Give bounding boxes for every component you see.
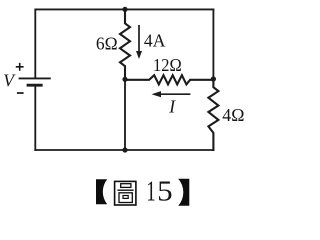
resistor 4ohm zigzag — [208, 80, 218, 150]
svg-text:V: V — [3, 70, 16, 90]
svg-text:12Ω: 12Ω — [153, 55, 182, 75]
svg-text:5: 5 — [157, 176, 173, 207]
battery V plate positive — [19, 77, 51, 79]
caption figure glyph — [115, 181, 136, 205]
svg-text:I: I — [168, 96, 176, 116]
junction node right — [211, 76, 216, 81]
current arrow I — [152, 91, 191, 97]
caption bracket right — [178, 179, 189, 206]
wire bottom — [35, 149, 213, 151]
wire left lower — [34, 86, 36, 150]
resistor 12ohm zigzag — [125, 75, 213, 84]
resistor 6ohm zigzag — [120, 9, 130, 79]
svg-text:1: 1 — [146, 176, 156, 207]
wire right upper — [212, 9, 214, 79]
svg-text:4A: 4A — [144, 30, 166, 50]
wire middle branch lower — [124, 80, 126, 150]
svg-text:4Ω: 4Ω — [222, 105, 244, 125]
junction node top — [122, 7, 127, 12]
label minus — [17, 92, 24, 94]
wire top — [35, 9, 213, 77]
junction node bottom — [122, 147, 127, 152]
label plus — [16, 63, 24, 71]
svg-text:6Ω: 6Ω — [96, 33, 118, 53]
junction node middle — [122, 77, 127, 82]
battery V plate negative — [27, 84, 43, 87]
current arrow 4A — [136, 25, 142, 59]
caption bracket left — [96, 179, 107, 204]
